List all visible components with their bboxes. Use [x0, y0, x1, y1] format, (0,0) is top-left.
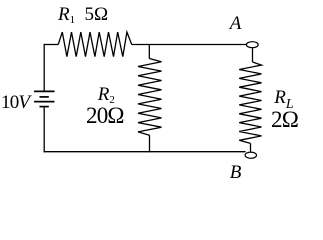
wire RL bottom stub [250, 143, 252, 152]
resistor R2 zigzag [138, 59, 162, 136]
label 20ohm [86, 104, 124, 127]
label 2ohm [271, 108, 298, 131]
label 10V [1, 93, 29, 112]
wire R2 top stub [148, 44, 150, 59]
label 5ohm [85, 5, 109, 24]
resistor R1 zigzag [58, 32, 132, 57]
wire R2 bottom stub [149, 135, 151, 152]
resistor RL zigzag [239, 62, 261, 143]
label R1 [58, 5, 75, 24]
wire top (R1 right to node A) [132, 44, 247, 46]
battery V1 plate long top [34, 90, 54, 92]
wire left vertical (battery - to bottom) [43, 107, 45, 153]
terminal B circle [245, 152, 256, 158]
wire top-left corner to R1 [44, 44, 59, 46]
wire RL top stub [252, 48, 254, 62]
node B label [230, 163, 242, 182]
battery V1 plate short [40, 96, 49, 98]
battery V1 plate long bottom [34, 101, 54, 103]
node A label [230, 14, 242, 33]
wire left vertical (top, to battery +) [43, 44, 45, 92]
label RL [274, 88, 293, 107]
battery V1 plate short bottom [40, 106, 49, 108]
wire bottom (left corner to node B) [44, 151, 246, 153]
label R2 [98, 85, 115, 104]
terminal A circle [246, 42, 258, 48]
